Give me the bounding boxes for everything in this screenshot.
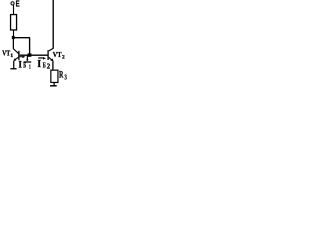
label VT2: [53, 51, 65, 61]
node B (junction dot): [28, 53, 32, 56]
svg-text:R: R: [59, 70, 64, 80]
node A (junction dot): [12, 36, 15, 39]
transistor VT2 emitter with arrow: [49, 57, 54, 61]
svg-text:VT: VT: [2, 49, 10, 57]
wire R3 down: [53, 83, 55, 86]
svg-text:E: E: [16, 0, 20, 8]
label VT1: [2, 49, 13, 59]
svg-text:2: 2: [47, 61, 50, 70]
transistor VT2 (base bar): [47, 50, 48, 60]
svg-text:I: I: [37, 59, 41, 70]
terminal bar R3 bottom: [50, 85, 57, 87]
svg-text:1: 1: [29, 64, 31, 71]
wire node B to VT1 and VT2 bases: [20, 54, 48, 56]
current arrow I_B2: [38, 57, 46, 60]
wire node A right: [13, 37, 30, 39]
terminal bar VT1 emitter: [10, 68, 16, 70]
resistor R1: [11, 15, 17, 30]
VT2 collector angled wire: [49, 48, 54, 51]
svg-text:3: 3: [65, 73, 68, 81]
wire corner down to node B: [29, 38, 31, 55]
svg-text:Б: Б: [23, 62, 26, 70]
wire terminal to R1: [13, 5, 15, 15]
transistor VT1 emitter with arrow: [13, 57, 19, 62]
svg-text:Б: Б: [43, 62, 46, 70]
svg-text:VT: VT: [53, 51, 62, 59]
wire VT1 collector branch: [13, 39, 19, 54]
terminal E (input circle): [11, 2, 14, 5]
svg-text:1: 1: [10, 53, 13, 59]
wire VT1 emitter down: [13, 61, 15, 69]
label I_B2: [37, 59, 50, 71]
supply rail wire (VT2 collector up): [52, 0, 54, 49]
wire VT2 emitter to R3: [52, 61, 54, 70]
resistor R3: [51, 70, 58, 82]
current arrow down at node B with bar: [24, 55, 32, 62]
label I_B1: [18, 61, 30, 71]
wire R1 to node A: [13, 30, 15, 36]
svg-text:2: 2: [62, 55, 65, 61]
label R3: [59, 70, 67, 82]
svg-text:I: I: [18, 61, 22, 71]
current arrow I_B1: [20, 56, 26, 59]
transistor VT1 (base bar): [18, 51, 19, 60]
